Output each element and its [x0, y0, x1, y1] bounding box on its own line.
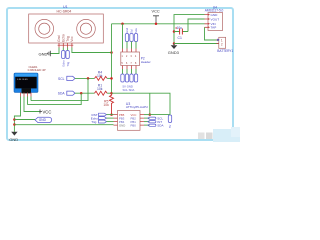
- VCC power rail wire: [112, 23, 205, 25]
- junction P2 pin1 on rail: [121, 23, 124, 26]
- junction R1 right: [110, 92, 113, 95]
- svg-text:Header: Header: [141, 60, 151, 64]
- pin arrows: [208, 14, 210, 29]
- wire Trig pin stub: [67, 48, 69, 51]
- svg-text:VOUT: VOUT: [211, 17, 220, 21]
- power symbol VCC: [152, 9, 160, 24]
- svg-text:HC-SR04: HC-SR04: [57, 9, 72, 13]
- svg-text:SCL SDA: SCL SDA: [123, 88, 135, 92]
- svg-text:BATTERY1: BATTERY1: [217, 49, 233, 53]
- regulator body: [208, 13, 223, 31]
- svg-text:Trig: Trig: [91, 120, 96, 124]
- main vertical VCC wire: [111, 24, 113, 93]
- battery connector BATTERY1: [216, 37, 233, 53]
- svg-text:2: 2: [221, 42, 223, 46]
- svg-text:PB0: PB0: [131, 124, 137, 128]
- svg-text:0.96OLED 4P: 0.96OLED 4P: [28, 68, 46, 72]
- wire SCL column down to OLED pin4: [31, 78, 88, 100]
- wire sensor Vcc to main vertical: [72, 48, 112, 53]
- net flag SCL (MCU right): [144, 117, 163, 121]
- junction battery minus: [173, 42, 176, 45]
- net flag P2 pin6: [125, 74, 128, 82]
- screen: [15, 77, 36, 89]
- wire MCU VCC pin to junction: [144, 114, 150, 116]
- polarity marker: [217, 39, 219, 42]
- svg-text:U1: U1: [63, 5, 68, 9]
- pin stubs left: [205, 15, 209, 28]
- right transducer: [77, 19, 96, 38]
- junction sensor Vcc: [110, 51, 113, 54]
- wire regulator VOUT to C1: [188, 19, 205, 32]
- sensor U1 HC-SR04: [29, 5, 104, 48]
- header P2: [121, 23, 151, 92]
- net flag INT (MCU right): [144, 120, 162, 124]
- net flag P2 pin5: [121, 74, 124, 82]
- ground GND3: [168, 44, 180, 56]
- svg-text:TAP: TAP: [211, 26, 217, 30]
- wire SCL flag to R4: [75, 77, 95, 79]
- junction GND flag branch: [13, 118, 16, 121]
- svg-text:VCC: VCC: [43, 110, 52, 115]
- P2 bottom wires: [123, 69, 137, 74]
- junction C1 left: [173, 30, 176, 33]
- svg-text:GND: GND: [39, 51, 48, 56]
- P2 body: [121, 52, 140, 66]
- P2 top pin stubs: [123, 49, 137, 53]
- right pin stubs: [140, 115, 144, 126]
- svg-text:Sda: Sda: [134, 28, 138, 33]
- svg-text:VCC: VCC: [152, 9, 160, 14]
- sensor body: [29, 14, 104, 43]
- svg-text:ATTiny85-AuPU: ATTiny85-AuPU: [126, 105, 148, 109]
- OLED display module OLED1: [14, 65, 46, 97]
- module body: [14, 73, 38, 93]
- net flag Echo (MCU): [91, 116, 107, 120]
- junction R5 bottom: [110, 113, 113, 116]
- net flag RST: [92, 113, 107, 117]
- resistor R4: [95, 70, 108, 80]
- wire OLED pin1 down to ground rail: [14, 97, 20, 132]
- junction MCU VCC: [149, 113, 152, 116]
- wire sensor GND pin to ground: [51, 48, 60, 54]
- svg-text:Echo: Echo: [62, 60, 66, 67]
- wire battery minus: [174, 43, 219, 45]
- left transducer: [35, 19, 54, 38]
- svg-text:GND: GND: [211, 13, 219, 17]
- net flag Trig (under sensor): [66, 51, 70, 67]
- svg-text:C1: C1: [178, 36, 182, 40]
- junction VCC stem: [155, 23, 158, 26]
- resistor R1: [95, 83, 108, 95]
- capacitor C1: [174, 26, 188, 40]
- wire Echo pin stub: [62, 48, 64, 51]
- wire R1 to vertical: [107, 92, 111, 94]
- wire SDA column down to OLED pin3: [28, 93, 82, 104]
- wire RST to PB5: [107, 114, 114, 116]
- wire Trig to PB4: [107, 121, 114, 123]
- svg-text:GND: GND: [39, 118, 47, 122]
- long ground wire to MCU: [14, 124, 113, 126]
- bottom-right page smudges: [198, 127, 240, 142]
- ground GND (bottom-left): [9, 132, 18, 142]
- svg-text:SCL: SCL: [58, 77, 65, 81]
- left pin stubs: [114, 115, 118, 126]
- wire P2 pin1 to rail: [122, 24, 124, 49]
- OLED pin stubs: [21, 93, 32, 97]
- net flag Echo (under sensor): [62, 51, 66, 67]
- P2 bottom pin stubs: [123, 66, 137, 70]
- svg-text:Vcc: Vcc: [70, 36, 74, 42]
- regulator U4 AMS1117: [205, 6, 224, 31]
- MCU U3 ATTINY85: [114, 102, 148, 130]
- svg-text:5V: 5V: [168, 125, 172, 128]
- net flag SDA (MCU right): [144, 123, 163, 127]
- battery pin stubs: [216, 40, 219, 44]
- wire R4 to vertical: [107, 77, 111, 79]
- MCU body: [118, 111, 141, 131]
- wire junction to 5V net flag: [150, 114, 170, 116]
- junction SCL column: [87, 77, 90, 80]
- junction bottom ground branch: [13, 123, 16, 126]
- svg-text:10k: 10k: [97, 87, 103, 91]
- pin stubs: [59, 43, 72, 48]
- net flag SDA (left): [58, 91, 75, 96]
- net flag GND (oval): [35, 117, 52, 122]
- svg-text:SDA: SDA: [157, 123, 163, 127]
- net flag 5V (vertical): [168, 115, 172, 128]
- net flag P2 pin7: [130, 74, 133, 82]
- svg-text:Gnd: Gnd: [125, 27, 129, 33]
- wire OLED pin4 up-right: [30, 97, 32, 101]
- svg-text:GND: GND: [9, 137, 18, 142]
- battery body: [219, 37, 226, 48]
- net flag SCL (left): [58, 76, 75, 81]
- wire R5 bottom to MCU VCC column: [112, 93, 171, 114]
- ground GND (sensor, pointing left): [39, 51, 51, 57]
- svg-text:0.96 OLED: 0.96 OLED: [17, 79, 28, 81]
- svg-text:Trig: Trig: [66, 61, 70, 66]
- svg-text:SDA: SDA: [58, 92, 66, 96]
- junction R4 right: [110, 77, 113, 80]
- svg-text:GND3: GND3: [168, 50, 180, 55]
- junction SDA column: [80, 92, 83, 95]
- svg-text:AMS1117-5.0: AMS1117-5.0: [205, 8, 224, 12]
- wire regulator GND pin: [174, 15, 205, 44]
- wire Echo to PB3: [107, 117, 114, 119]
- connector block: [22, 88, 32, 93]
- wire OLED pin3: [27, 97, 29, 105]
- wire battery plus to TAP: [205, 27, 219, 40]
- wire SDA flag to R1: [75, 92, 95, 94]
- svg-text:GND: GND: [119, 124, 125, 128]
- net flag Trig (MCU): [91, 120, 106, 124]
- svg-text:10k: 10k: [103, 103, 109, 107]
- net flag P2 pin8: [134, 74, 137, 82]
- resistor R5 (vertical): [103, 93, 113, 114]
- svg-text:Scl: Scl: [130, 29, 134, 33]
- wire OLED pin2 to VCC flag: [24, 97, 40, 112]
- wire to GND net flag: [14, 119, 35, 121]
- power flag VCC (OLED): [40, 110, 51, 115]
- border frame: [7, 8, 233, 140]
